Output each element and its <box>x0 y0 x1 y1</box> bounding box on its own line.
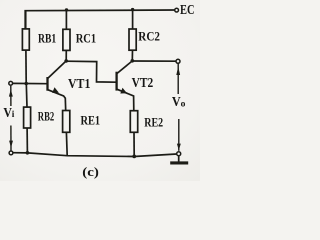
node: junction dot VT1 collector / RC1 <box>64 59 68 63</box>
svg-text:RC1: RC1 <box>76 31 96 46</box>
svg-text:RE2: RE2 <box>144 115 163 130</box>
node: junction tick RC1 top <box>65 8 68 11</box>
terminal input bottom (open circle) <box>9 151 13 155</box>
transistor VT2 <box>117 61 134 111</box>
arrow Vi polarity (up) <box>9 86 13 106</box>
caption (c) <box>82 164 99 179</box>
arrow Vi polarity (down) <box>9 126 13 151</box>
transistor VT1 <box>48 61 67 111</box>
label EC <box>180 2 195 17</box>
label Vi <box>3 105 14 120</box>
svg-text:(c): (c) <box>82 164 99 179</box>
resistor RE2 <box>130 111 137 157</box>
label Vo <box>172 95 186 110</box>
terminal input top (open circle) <box>9 81 13 85</box>
node: junction dot RE2 bottom <box>132 155 136 159</box>
terminal EC (open circle) <box>175 8 179 12</box>
resistor RC2 <box>129 10 136 61</box>
svg-text:RB1: RB1 <box>38 30 56 45</box>
node: junction tick RC2 top <box>131 8 134 11</box>
value label RE2 <box>144 115 163 130</box>
resistor RB1 <box>22 11 29 84</box>
wire: interstage coupling <box>66 61 116 82</box>
paper background <box>0 0 200 181</box>
node: junction dot RB divider <box>24 82 28 86</box>
value label RC2 <box>138 28 160 43</box>
value label RC1 <box>76 31 96 46</box>
svg-text:RB2: RB2 <box>38 109 54 124</box>
wire: input base rail <box>13 82 47 84</box>
wire: bottom ground rail <box>13 153 177 157</box>
wire: output collector rail <box>132 60 176 62</box>
resistor RC1 <box>63 10 70 60</box>
label VT1 <box>68 77 90 92</box>
resistor RE1 <box>63 111 70 156</box>
svg-text:VT2: VT2 <box>132 76 154 91</box>
svg-text:o: o <box>181 100 186 110</box>
value label RB2 <box>38 109 54 124</box>
node: junction dot VT2 collector / RC2 <box>131 59 135 63</box>
node: junction dot RB2 bottom <box>26 151 30 155</box>
value label RB1 <box>38 30 56 45</box>
svg-text:V: V <box>172 95 181 110</box>
svg-text:VT1: VT1 <box>68 77 90 92</box>
ground <box>170 156 188 163</box>
wire: top supply rail <box>25 10 175 30</box>
arrow Vo polarity (down) <box>177 119 181 151</box>
arrow Vo polarity (up) <box>176 64 180 94</box>
terminal output bottom (open circle) <box>177 152 181 156</box>
label VT2 <box>132 76 154 91</box>
value label RE1 <box>81 113 101 128</box>
resistor RB2 <box>24 84 31 153</box>
svg-text:EC: EC <box>180 2 195 17</box>
svg-text:i: i <box>12 110 15 120</box>
svg-text:RC2: RC2 <box>138 28 160 43</box>
svg-text:RE1: RE1 <box>81 113 101 128</box>
terminal output top (open circle) <box>176 59 180 63</box>
